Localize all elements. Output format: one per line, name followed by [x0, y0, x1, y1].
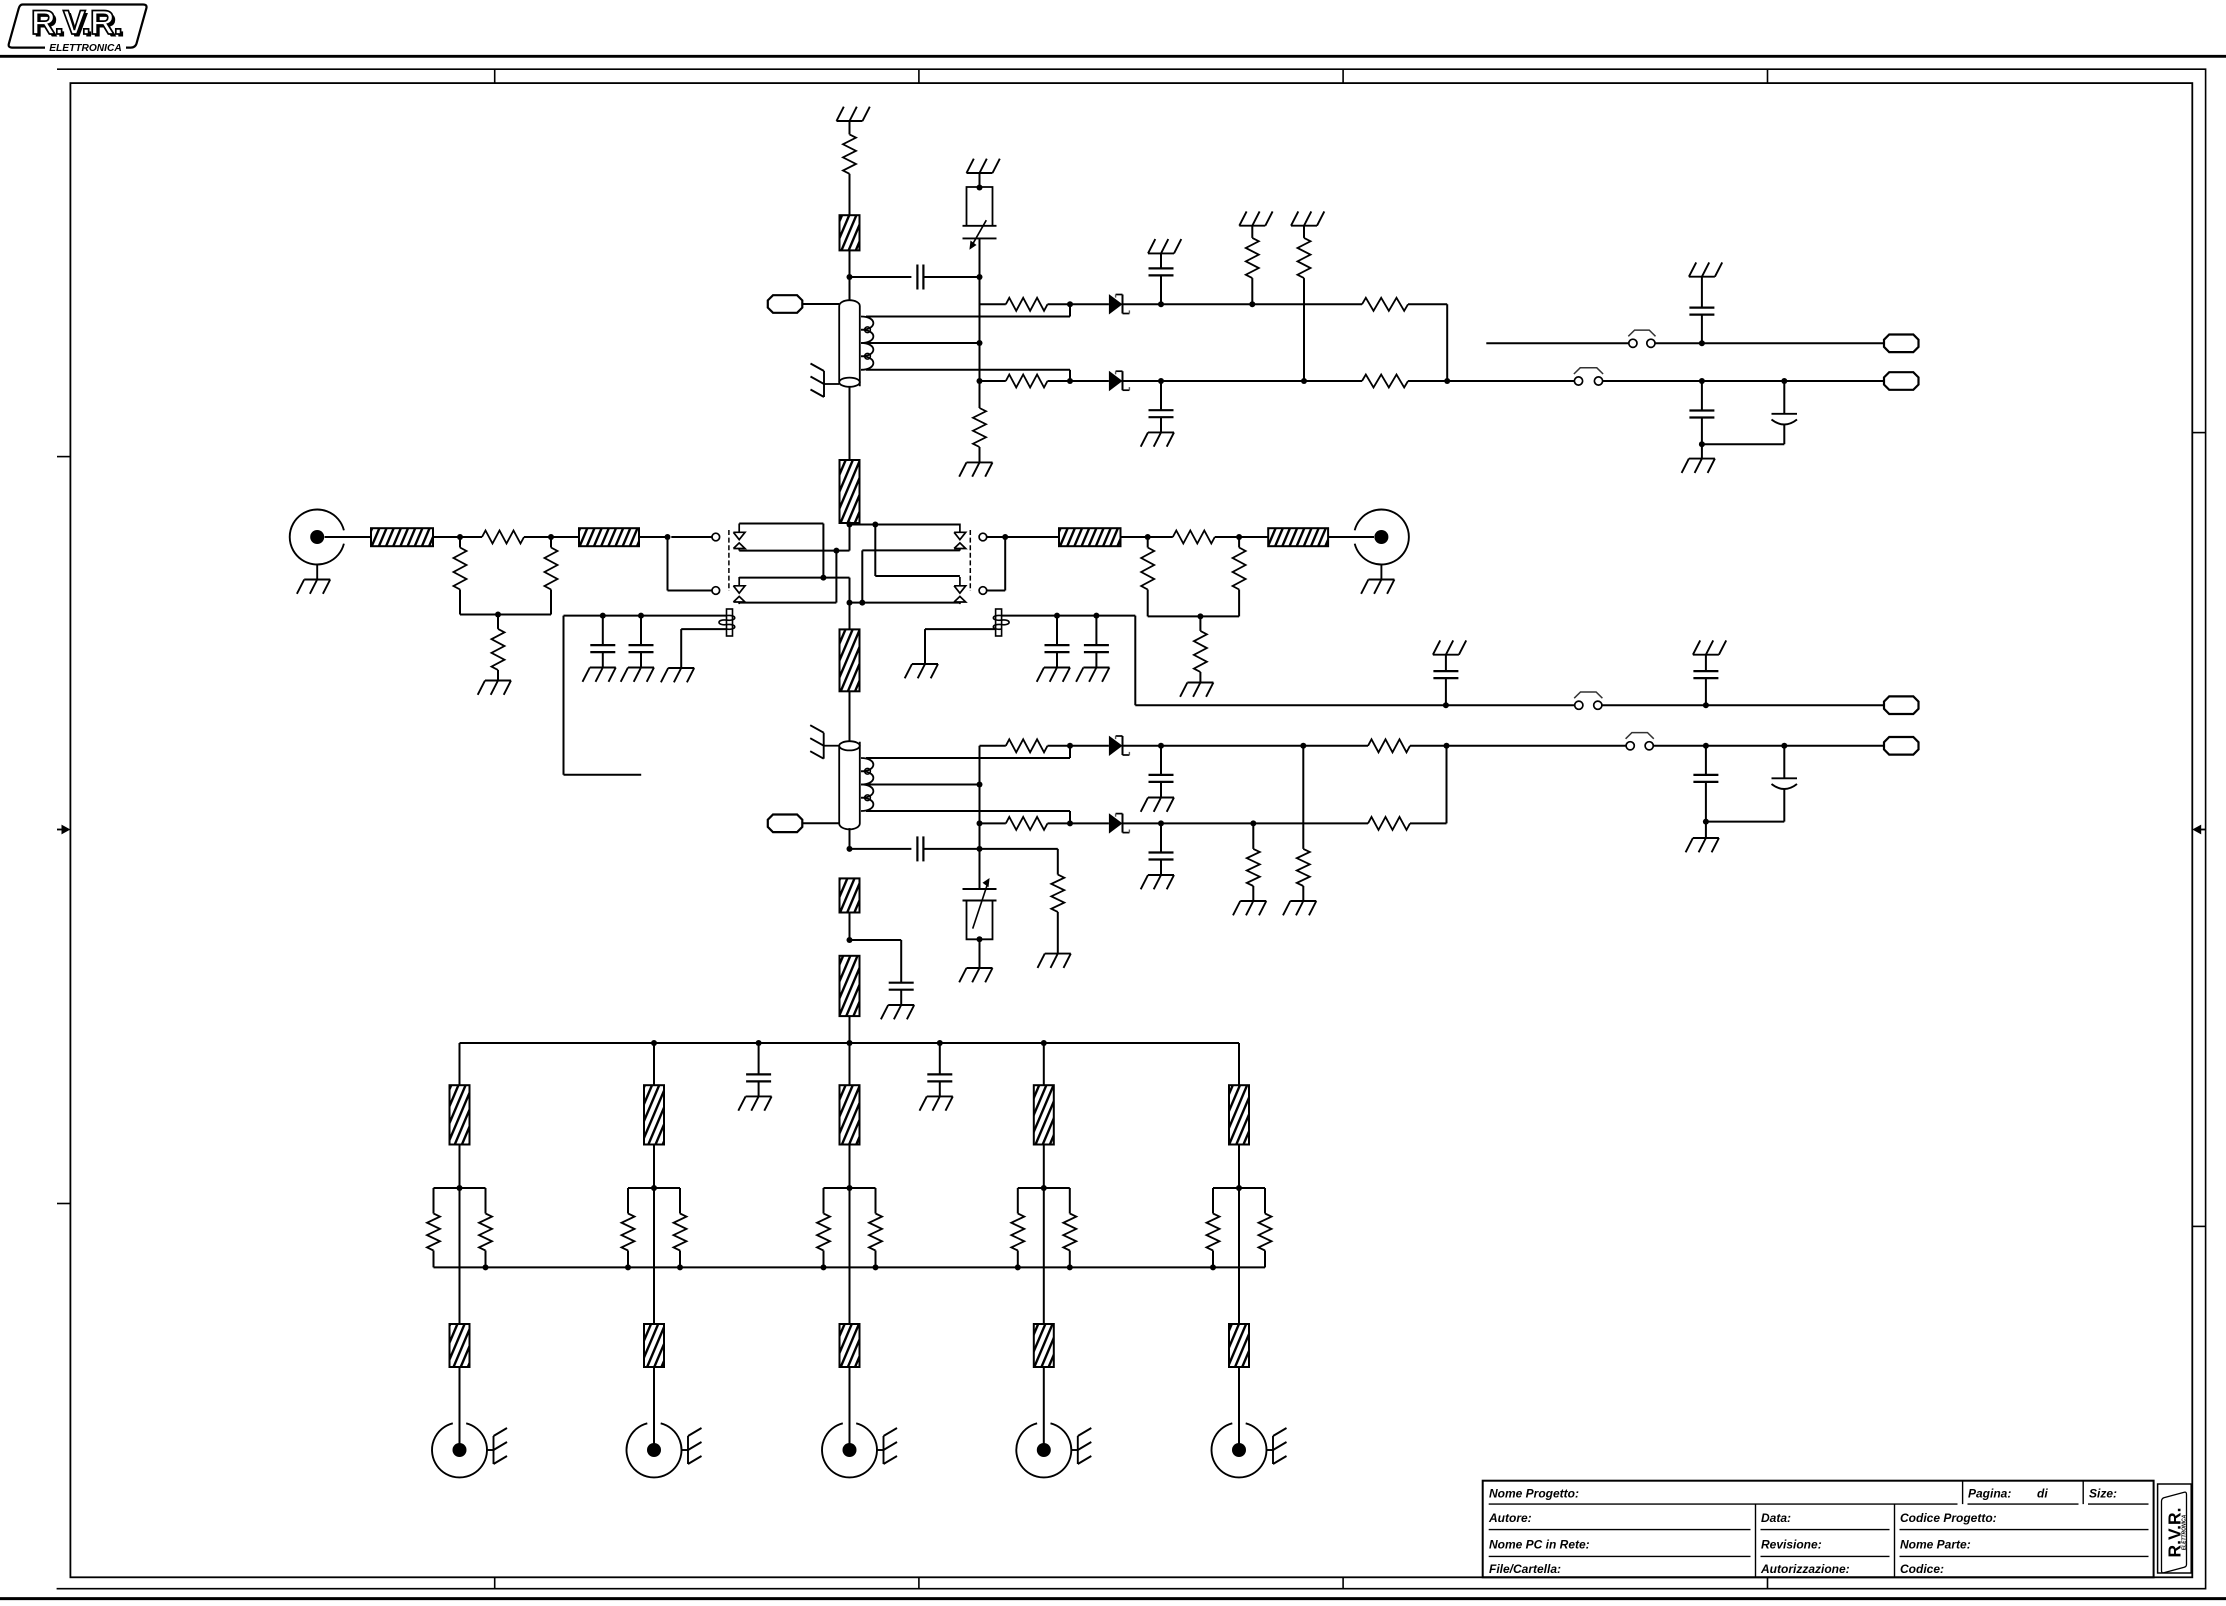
- node: [821, 1264, 827, 1270]
- resistor (hatched, output series 2): [1268, 528, 1328, 546]
- wire: [850, 276, 912, 278]
- resistor (detector row 3): [1006, 739, 1048, 752]
- wire: [1410, 746, 1447, 824]
- transformer (bottom, line transformer): [839, 741, 860, 829]
- capacitor (series, top block): [917, 265, 923, 290]
- wire (winding tap 1): [866, 304, 1070, 316]
- ground: [583, 668, 616, 682]
- node: [1041, 1185, 1047, 1191]
- wire: [653, 1367, 655, 1444]
- ground: [478, 681, 511, 695]
- ground: [661, 668, 694, 682]
- resistor (hatched, bottom chain 2): [840, 956, 860, 1016]
- svg-text:Autore:: Autore:: [1488, 1511, 1532, 1525]
- relay contact K1d (right bottom): [954, 577, 987, 604]
- node: [859, 600, 865, 606]
- node: [1067, 301, 1073, 307]
- node: [1703, 702, 1709, 708]
- relay coil K2 (right): [993, 609, 1009, 636]
- node: [1236, 1185, 1242, 1191]
- node: [1250, 820, 1256, 826]
- wire (right NO top): [862, 550, 960, 602]
- node: [1093, 613, 1099, 619]
- node: [651, 1040, 657, 1046]
- title text Codice: [1900, 1562, 1944, 1576]
- wire: [551, 536, 668, 538]
- wire: [1653, 745, 1884, 747]
- node: [1041, 1040, 1047, 1046]
- title text Size: [2089, 1487, 2117, 1501]
- relay contact K1a (left top): [712, 524, 745, 551]
- resistor (row 2 series out): [1362, 375, 1408, 388]
- node: [1054, 613, 1060, 619]
- node: [495, 612, 501, 618]
- wire: [653, 1188, 655, 1324]
- wire: [671, 536, 712, 538]
- capacitor (out filter C): [1693, 746, 1718, 822]
- node: [977, 936, 983, 942]
- node: [1197, 613, 1203, 619]
- title text Data: [1761, 1511, 1791, 1525]
- node: [1158, 301, 1164, 307]
- svg-text:Data:: Data:: [1761, 1511, 1791, 1525]
- node: [1301, 378, 1307, 384]
- resistor (row 2 pull, zigzag): [1298, 226, 1311, 381]
- svg-text:R.V.R.: R.V.R.: [31, 4, 122, 42]
- resistor (damping, zigzag): [1051, 875, 1064, 954]
- resistor (hatched, combiner top 1): [450, 1085, 470, 1144]
- title text File/Cartella: [1489, 1562, 1561, 1576]
- node: [977, 782, 983, 788]
- resistor (row 4 series out): [1368, 817, 1410, 830]
- capacitor (row 1 filter): [1149, 253, 1174, 304]
- frame zone ticks top and bottom: [495, 69, 1768, 1589]
- wire: [850, 848, 912, 850]
- node: [937, 1040, 943, 1046]
- node: [847, 1185, 853, 1191]
- ground: [1291, 211, 1324, 225]
- node: [1699, 441, 1705, 447]
- RVR Elettronica logo: [9, 4, 147, 54]
- RVR logo (title block): [2158, 1484, 2192, 1573]
- node: [1210, 1264, 1216, 1270]
- title block grid: [1483, 1481, 2154, 1578]
- node: [1158, 378, 1164, 384]
- title text Autore: [1488, 1511, 1532, 1525]
- input terminal (bottom transformer): [768, 815, 803, 833]
- wire: [325, 536, 371, 538]
- wire: [1238, 1043, 1240, 1085]
- ground: [621, 668, 654, 682]
- node: [1300, 743, 1306, 749]
- node: [977, 340, 983, 346]
- wire: [1602, 704, 1884, 706]
- ground: [959, 462, 992, 476]
- node: [847, 522, 853, 528]
- diode D (row 4 detector): [1109, 813, 1130, 833]
- node: [833, 548, 839, 554]
- node: [847, 937, 853, 943]
- node: [1236, 534, 1242, 540]
- svg-text:Autorizzazione:: Autorizzazione:: [1760, 1562, 1850, 1576]
- wire: [849, 691, 851, 742]
- ground: [1689, 262, 1722, 276]
- node: [1699, 340, 1705, 346]
- resistor (pad shunt right): [545, 537, 558, 615]
- node: [1699, 378, 1705, 384]
- svg-text:Codice:: Codice:: [1900, 1562, 1944, 1576]
- node: [1067, 743, 1073, 749]
- node: [625, 1264, 631, 1270]
- node: [977, 846, 983, 852]
- node: [1158, 743, 1164, 749]
- wire (coil drive rail left): [564, 615, 727, 617]
- wire: [1121, 536, 1148, 538]
- node: [847, 1040, 853, 1046]
- wire: [1447, 745, 1627, 747]
- node: [1015, 1264, 1021, 1270]
- capacitor (row 2 filter): [1149, 381, 1174, 432]
- capacitor (series, bottom block): [917, 836, 923, 861]
- capacitor (coil snubber 3): [1045, 616, 1070, 668]
- wire: [1123, 380, 1363, 382]
- resistor (hatched, top bias): [840, 215, 860, 250]
- wire: [1043, 1043, 1045, 1085]
- resistor (pad2 shunt left): [1141, 537, 1154, 616]
- capacitor (out filter A): [1689, 381, 1714, 444]
- wire: [849, 1016, 851, 1043]
- BNC connector (input): [290, 510, 344, 565]
- resistor (hatched, combiner top 2): [644, 1085, 664, 1144]
- ground: [1433, 640, 1466, 654]
- wire: [979, 343, 981, 381]
- ground (port BNC): [682, 1428, 702, 1464]
- svg-text:File/Cartella:: File/Cartella:: [1489, 1562, 1561, 1576]
- resistor pair (combiner 2): [622, 1188, 687, 1267]
- transformer (top, line transformer): [839, 300, 860, 387]
- wire: [1135, 704, 1574, 706]
- BNC connector (port 2): [627, 1423, 682, 1477]
- relay contact K1b (left bottom): [712, 577, 745, 604]
- resistor (hatched, input series 2): [579, 528, 639, 546]
- BNC connector (port 4): [1016, 1423, 1071, 1477]
- node: [1781, 743, 1787, 749]
- wire: [1070, 303, 1109, 305]
- wire: [459, 1043, 461, 1085]
- wire: [979, 939, 981, 968]
- ground: [1180, 683, 1213, 697]
- wire: [1447, 380, 1574, 382]
- wire (winding tap 1): [866, 746, 1070, 758]
- wire: [681, 629, 726, 668]
- trimmer capacitor (top block): [963, 187, 997, 250]
- wire: [1238, 1188, 1240, 1324]
- wire (combiner rail bottom): [434, 1266, 1266, 1268]
- resistor (row 3 series out): [1368, 739, 1410, 752]
- svg-text:Pagina:: Pagina:: [1968, 1487, 2011, 1501]
- capacitor (out filter B): [1689, 277, 1714, 344]
- wire: [1043, 1145, 1045, 1189]
- ground: [1148, 239, 1181, 253]
- wire: [1043, 1188, 1045, 1324]
- transformer secondary winding (top): [861, 317, 873, 370]
- wire: [1005, 536, 1059, 538]
- wire: [849, 387, 851, 460]
- wire: [849, 1043, 851, 1085]
- ground (port BNC): [1071, 1428, 1091, 1464]
- capacitor (row 3 filter): [1149, 746, 1174, 798]
- wire: [1486, 342, 1629, 344]
- frame zone ticks left and right: [57, 433, 2206, 1227]
- wire: [802, 822, 839, 824]
- wire: [459, 1145, 461, 1189]
- wire: [1410, 745, 1447, 747]
- diode D (row 1 detector): [1109, 294, 1130, 314]
- resistor (trimmer column to ground): [973, 381, 986, 462]
- resistor (hatched, input series 1): [371, 528, 433, 546]
- wire (combiner top rail): [460, 1042, 1240, 1044]
- wire: [1048, 380, 1071, 382]
- node: [1145, 534, 1151, 540]
- resistor (hatched, output series 1): [1059, 528, 1121, 546]
- title text Nome PC in Rete: [1489, 1538, 1590, 1552]
- wire: [849, 913, 851, 941]
- resistor (hatched, combiner bottom 3): [840, 1324, 860, 1367]
- ground: [959, 968, 992, 982]
- resistor (row 1 series out): [1362, 298, 1408, 311]
- capacitor (coil snubber 1): [590, 616, 615, 668]
- resistor (detector row 2): [1006, 375, 1048, 388]
- node: [977, 820, 983, 826]
- relay contact K1c (right top): [954, 524, 987, 551]
- wire (left NO top): [739, 550, 836, 552]
- wire: [1238, 1367, 1240, 1444]
- wire: [923, 276, 979, 278]
- node (top feed junction): [847, 274, 853, 280]
- jumper switch (row 3 out): [1626, 733, 1654, 750]
- node: [1781, 378, 1787, 384]
- node: [1443, 702, 1449, 708]
- svg-text:Nome Parte:: Nome Parte:: [1900, 1538, 1971, 1552]
- resistor pair (combiner 3): [817, 1188, 882, 1267]
- relay actuator link (right): [969, 530, 971, 591]
- node: [1249, 301, 1255, 307]
- wire: [433, 536, 460, 538]
- wire (coil drive rail right): [1002, 615, 1136, 617]
- wire: [668, 537, 713, 591]
- ground (top transformer shield): [811, 364, 840, 398]
- node: [1703, 743, 1709, 749]
- resistor (top bias, zigzag): [843, 134, 856, 173]
- wire: [849, 1145, 851, 1189]
- node: [1067, 1264, 1073, 1270]
- wire (right NC bottom): [875, 525, 960, 577]
- wire: [849, 1367, 851, 1444]
- capacitor (row 4 filter): [1149, 823, 1174, 875]
- input terminal (top transformer): [768, 295, 803, 313]
- resistor (detector row 1): [1006, 298, 1048, 311]
- node: [756, 1040, 762, 1046]
- wire (left NC top): [739, 524, 823, 578]
- wire: [1603, 380, 1884, 382]
- wire: [979, 173, 981, 187]
- resistor (hatched, above relay): [840, 460, 860, 523]
- wire: [1408, 304, 1447, 381]
- ground (top bias chain): [837, 107, 870, 121]
- capacitor (electrolytic, out C): [1706, 746, 1797, 822]
- capacitor (bottom chain filter): [850, 940, 914, 1005]
- wire (pad bottom rail): [460, 614, 551, 616]
- wire: [653, 1145, 655, 1189]
- jumper switch (row 2 out): [1574, 368, 1603, 385]
- ground: [920, 1096, 953, 1110]
- resistor (hatched, combiner bottom 5): [1229, 1324, 1249, 1367]
- output terminal (row 2): [1884, 372, 1919, 390]
- node: [548, 534, 554, 540]
- wire: [1123, 822, 1369, 824]
- ground: [1141, 432, 1174, 446]
- wire (left NC bottom): [739, 577, 823, 579]
- ground: [1233, 901, 1266, 915]
- resistor pair (combiner 4): [1011, 1188, 1076, 1267]
- BNC connector (port 5): [1211, 1423, 1266, 1477]
- node: [977, 378, 983, 384]
- wire (winding tap 2): [866, 342, 980, 344]
- wire: [849, 250, 851, 301]
- capacitor (rail bypass 1): [746, 1043, 771, 1096]
- ground: [1038, 954, 1071, 968]
- ground (output BNC): [1361, 565, 1394, 594]
- ground: [1682, 459, 1715, 473]
- wire: [1070, 745, 1109, 747]
- wire (right NO bottom): [862, 602, 960, 604]
- resistor (row 1 pull, zigzag): [1246, 226, 1259, 305]
- svg-text:Nome PC in Rete:: Nome PC in Rete:: [1489, 1538, 1590, 1552]
- wire (winding tap 3): [866, 811, 1070, 823]
- ground (trimmer top): [967, 159, 1000, 173]
- node: [1067, 378, 1073, 384]
- capacitor (coil snubber 2): [629, 616, 654, 668]
- capacitor (coil snubber 4): [1084, 616, 1109, 668]
- wire: [980, 849, 1058, 875]
- ground: [1037, 668, 1070, 682]
- resistor (hatched, bottom chain 1): [840, 878, 860, 912]
- wire: [1070, 822, 1109, 824]
- relay coil K1 (left): [719, 609, 735, 636]
- resistor (pad series): [460, 531, 551, 544]
- frame center arrow right: [2192, 825, 2205, 835]
- wire: [979, 238, 981, 343]
- node: [638, 613, 644, 619]
- resistor (hatched, combiner top 3): [840, 1085, 860, 1144]
- capacitor (out filter D): [1693, 655, 1718, 706]
- wire: [653, 1043, 655, 1085]
- resistor (pad2 shunt right): [1233, 537, 1246, 616]
- wire: [1123, 303, 1363, 305]
- title text Codice Progetto: [1900, 1511, 1997, 1525]
- page bottom border line: [0, 1597, 2226, 1600]
- node: [600, 613, 606, 619]
- title text Revisione: [1761, 1538, 1822, 1552]
- wire (right NC top): [875, 524, 960, 526]
- frame center arrow left: [57, 825, 70, 835]
- ground (bottom transformer shield): [810, 725, 839, 759]
- resistor (hatched, combiner bottom 1): [450, 1324, 470, 1367]
- node: [820, 575, 826, 581]
- svg-text:ELETTRONICA: ELETTRONICA: [2182, 1514, 2188, 1550]
- wire (pad2 bottom rail): [1148, 615, 1239, 617]
- wire: [849, 121, 851, 134]
- node: [847, 600, 853, 606]
- wire: [850, 602, 863, 604]
- diode D (row 3 detector): [1109, 736, 1130, 756]
- wire: [849, 1188, 851, 1324]
- wire: [979, 746, 981, 889]
- wire: [1238, 1145, 1240, 1189]
- wire: [923, 848, 979, 850]
- node: [1703, 819, 1709, 825]
- resistor (pad2 series): [1148, 531, 1239, 544]
- capacitor (electrolytic, out A): [1702, 381, 1797, 444]
- wire: [980, 303, 1006, 305]
- capacitor (out filter E): [1433, 655, 1458, 706]
- ground: [1686, 838, 1719, 852]
- resistor (pad to ground): [492, 615, 505, 681]
- wire: [987, 536, 1006, 538]
- node (trimmer branch): [977, 274, 983, 280]
- wire: [849, 603, 851, 630]
- node: [457, 534, 463, 540]
- node: [1067, 820, 1073, 826]
- wire: [1134, 616, 1136, 706]
- wire: [459, 1367, 461, 1444]
- wire: [1070, 380, 1109, 382]
- output terminal (row 4): [1884, 696, 1919, 714]
- page top border line: [0, 55, 2226, 58]
- wire: [1705, 822, 1707, 838]
- svg-text:Codice Progetto:: Codice Progetto:: [1900, 1511, 1997, 1525]
- wire: [459, 1188, 461, 1324]
- wire (drive stub): [564, 616, 642, 775]
- ground: [1693, 640, 1726, 654]
- resistor (row 3 pull, zigzag): [1297, 746, 1310, 901]
- ground: [1141, 798, 1174, 812]
- title text Nome Progetto: [1489, 1487, 1579, 1501]
- ground (port BNC): [1267, 1428, 1287, 1464]
- wire: [1048, 303, 1071, 305]
- wire: [980, 745, 1006, 747]
- ground: [881, 1005, 914, 1019]
- wire: [1701, 444, 1703, 458]
- resistor (hatched, below relay): [840, 629, 860, 691]
- BNC connector (port 3): [822, 1423, 877, 1477]
- jumper switch (row 1 out): [1628, 330, 1655, 347]
- resistor (hatched, combiner top 5): [1229, 1085, 1249, 1144]
- wire: [849, 828, 851, 849]
- wire: [836, 525, 849, 551]
- resistor (hatched, combiner bottom 2): [644, 1324, 664, 1367]
- svg-text:Size:: Size:: [2089, 1487, 2117, 1501]
- wire: [823, 578, 849, 603]
- node: [1444, 378, 1450, 384]
- wire: [980, 822, 1006, 824]
- wire: [850, 524, 876, 526]
- node: [1002, 534, 1008, 540]
- transformer secondary winding (bottom): [861, 758, 873, 811]
- output terminal (row 1): [1884, 335, 1919, 353]
- output terminal (row 3): [1884, 737, 1919, 755]
- resistor (row 4 pull, zigzag): [1247, 823, 1260, 901]
